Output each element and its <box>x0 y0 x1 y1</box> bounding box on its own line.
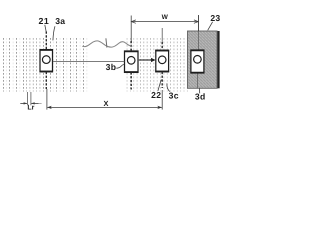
svg-text:21: 21 <box>39 16 50 26</box>
yarn sheet columns <box>4 38 188 92</box>
svg-text:3c: 3c <box>169 91 179 101</box>
leader for 23 <box>208 22 213 31</box>
Lr right arrowhead <box>31 102 35 104</box>
svg-text:3b: 3b <box>106 62 117 72</box>
svg-text:3d: 3d <box>195 91 206 101</box>
yarn guide 3b-middle <box>124 51 139 72</box>
Lr left arrowhead <box>24 102 28 104</box>
leader for 22 <box>158 80 161 91</box>
svg-text:X: X <box>104 99 109 108</box>
X dimension right arrowhead <box>157 106 162 109</box>
leader for 21 <box>45 25 46 32</box>
yarn 21 dashed centerline above guide 3a <box>45 32 47 50</box>
wavy yarn line <box>82 41 132 47</box>
svg-text:22: 22 <box>151 90 161 100</box>
direction arrow between middle guide and 3c <box>139 59 152 61</box>
W dimension right arrowhead <box>194 20 198 23</box>
W dimension left arrowhead <box>132 20 136 23</box>
centerline below guide 3d <box>197 73 199 88</box>
leader for 3a <box>53 26 55 40</box>
yarn guide 3d <box>190 50 204 73</box>
leader for 3b <box>116 64 124 68</box>
centerline above guide 3d <box>197 15 199 31</box>
X dimension left arrowhead <box>47 106 52 109</box>
leader for 3d <box>199 88 201 93</box>
yarn guide 3a <box>40 50 54 72</box>
leader for 3c <box>167 83 170 91</box>
svg-text:23: 23 <box>210 13 220 23</box>
yarn thread between guide 3a and middle guide <box>53 61 124 63</box>
dashed centerline below guide 3a <box>45 72 47 89</box>
svg-text:Lr: Lr <box>27 105 34 112</box>
dashed centerline above guide 3c <box>161 42 163 50</box>
svg-text:W: W <box>162 14 169 21</box>
tick on wavy yarn <box>106 38 107 47</box>
traverse block 23 hatched body <box>188 31 220 88</box>
dimension W <box>131 15 198 41</box>
dashed centerline below guide 3c <box>161 72 163 88</box>
thin centerline above guide 3c <box>161 28 163 42</box>
dimension Lr <box>27 92 31 105</box>
yarn guide 3c <box>155 50 169 72</box>
dashed centerline below middle guide <box>130 72 132 89</box>
dimension X <box>47 89 162 110</box>
svg-text:3a: 3a <box>55 16 65 26</box>
dashed centerline above middle guide <box>130 41 132 51</box>
